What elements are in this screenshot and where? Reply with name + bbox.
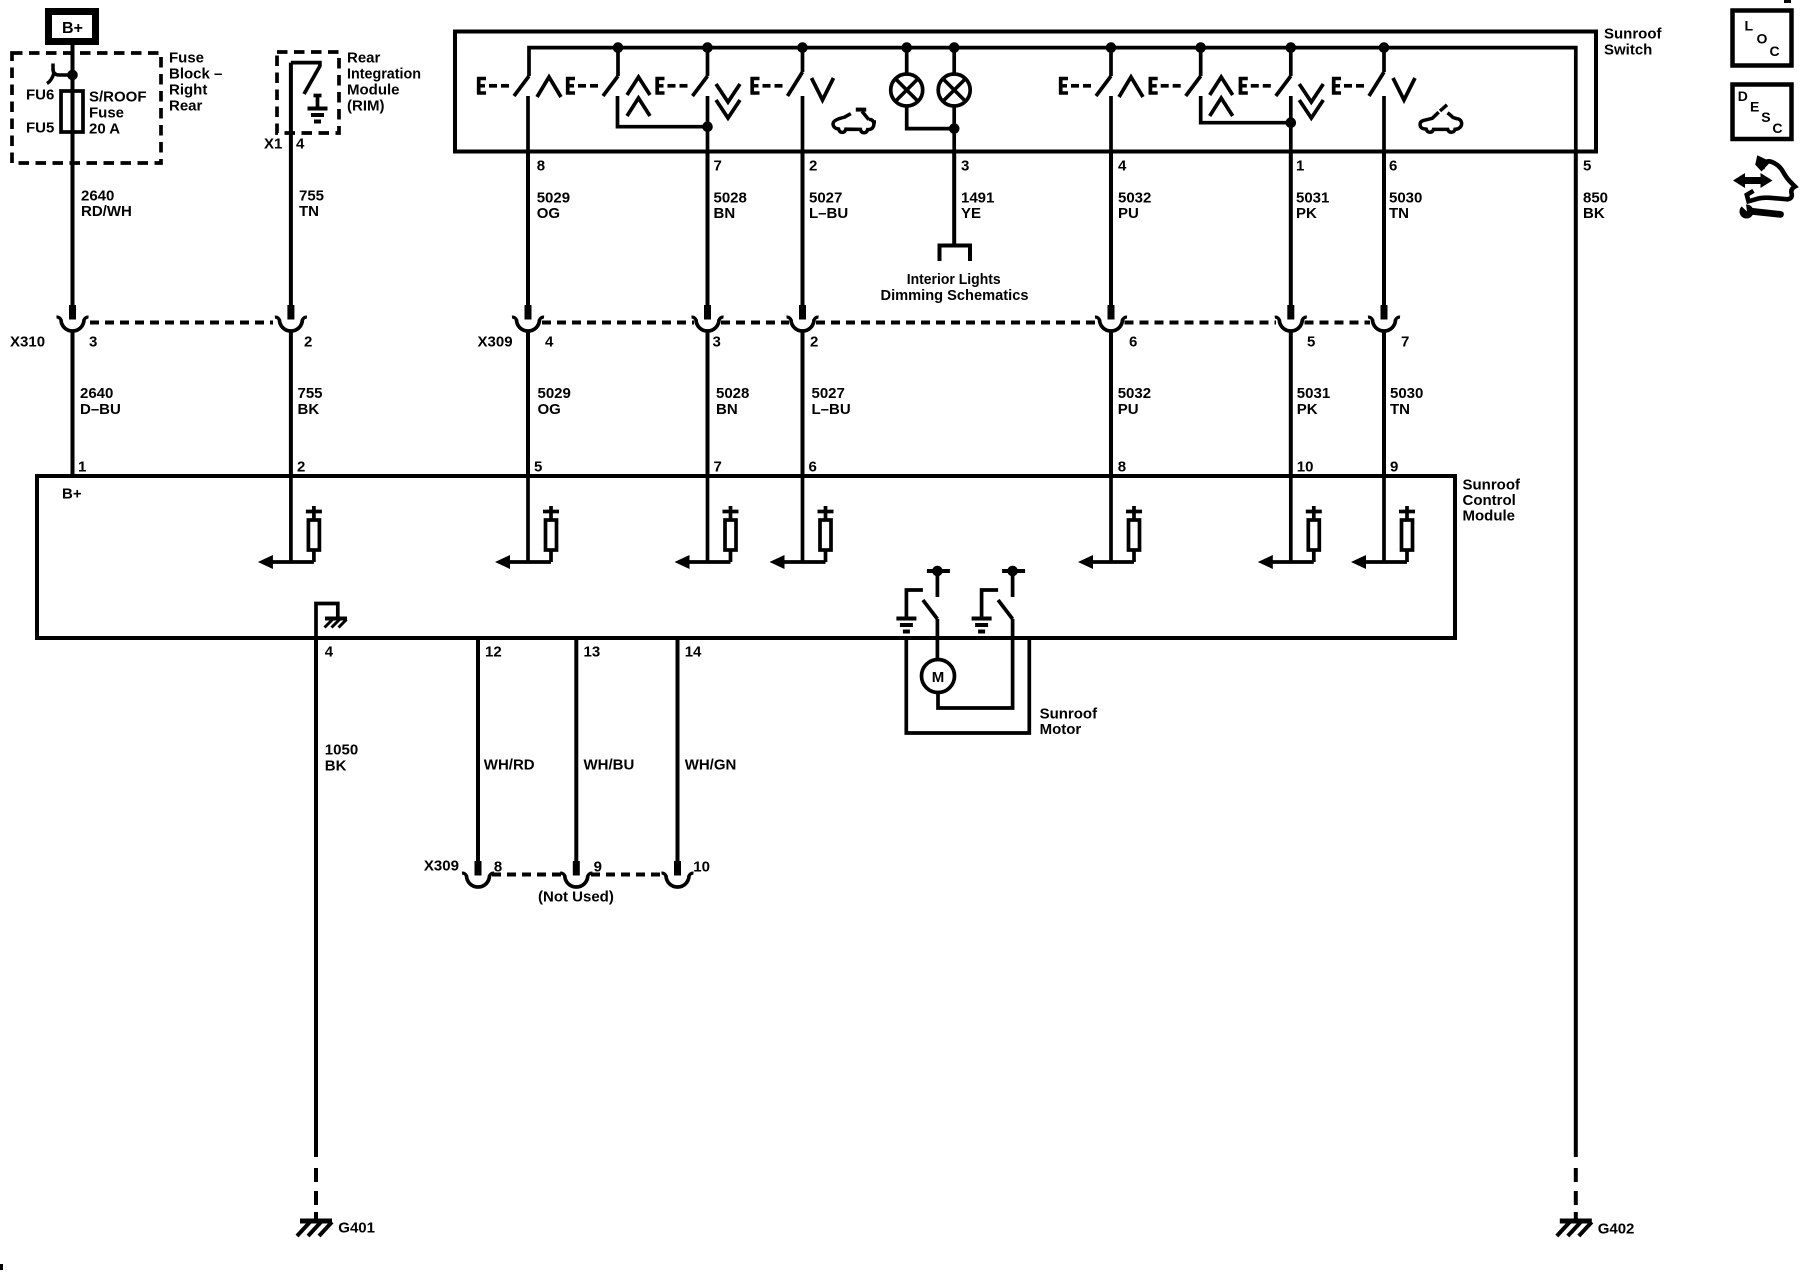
svg-text:5032: 5032 (1118, 190, 1151, 207)
svg-text:Integration: Integration (347, 66, 421, 83)
wire label 5031 PK (1296, 190, 1329, 223)
svg-text:5032: 5032 (1118, 385, 1151, 402)
svg-text:L: L (1745, 18, 1754, 34)
svg-text:2: 2 (304, 334, 312, 351)
svg-text:FU6: FU6 (26, 87, 54, 104)
svg-text:6: 6 (809, 459, 817, 476)
wire X309.5 to module pin 10 (1289, 331, 1293, 476)
connector X310 pin 3 (57, 305, 89, 331)
wire lamps to pin 3 (952, 106, 956, 151)
fuse FU5 S/ROOF 20A (61, 91, 83, 132)
wire pin 6 to X309 pin 7 (1382, 150, 1386, 305)
svg-text:BN: BN (716, 401, 738, 418)
svg-text:OG: OG (538, 401, 561, 418)
svg-text:850: 850 (1583, 190, 1608, 207)
wire X309.4 to module pin 5 (526, 331, 530, 476)
wire label 5027 L-BU (809, 190, 848, 223)
svg-text:BK: BK (325, 758, 347, 775)
svg-text:6: 6 (1129, 334, 1137, 351)
wire S8 to pin 6 (1382, 96, 1386, 150)
RIM internal ground (308, 96, 328, 122)
switch pin labels (537, 158, 1592, 175)
svg-text:8: 8 (494, 859, 502, 876)
junction lamps common (949, 123, 960, 134)
svg-text:9: 9 (594, 859, 602, 876)
svg-text:B+: B+ (62, 20, 83, 37)
wire B+ feed down through fuse to X310 pin 3 (71, 45, 75, 305)
connector X309 pin 8 not used (462, 861, 494, 887)
svg-text:5028: 5028 (716, 385, 749, 402)
car opening icon (1420, 105, 1462, 132)
sunroof switch outer box (455, 32, 1596, 152)
wire label 5028 BN (714, 190, 747, 223)
svg-text:Sunroof: Sunroof (1040, 706, 1098, 723)
svg-text:Sunroof: Sunroof (1604, 26, 1662, 43)
svg-text:Motor: Motor (1040, 721, 1082, 738)
wire X309.2 to module pin 6 (801, 331, 805, 476)
switch S5 open/up contact (1059, 42, 1143, 97)
svg-text:5: 5 (1583, 158, 1591, 175)
fuse block label (169, 50, 222, 115)
wire lamp 1 to lamp 2 node (907, 106, 955, 129)
wire label 5029 OG (537, 190, 570, 223)
module pin labels bottom (325, 644, 702, 661)
svg-text:Control: Control (1463, 492, 1516, 509)
svg-text:WH/BU: WH/BU (584, 757, 635, 774)
switch S1 open/up contact (477, 76, 561, 97)
svg-text:7: 7 (714, 158, 722, 175)
wire driver Q1 to motor (936, 637, 940, 660)
svg-text:M: M (932, 669, 945, 686)
connector labels X309 (478, 334, 1410, 351)
svg-text:Rear: Rear (347, 50, 381, 67)
pull-up and sense arrow pin 8 (1078, 476, 1142, 569)
svg-text:10: 10 (1297, 459, 1314, 476)
LOC reference box (1733, 11, 1792, 66)
svg-text:BK: BK (298, 401, 320, 418)
svg-text:Module: Module (347, 82, 400, 99)
wire S1 to pin 8 (526, 96, 530, 150)
connector X309 pin 4 (512, 305, 544, 331)
connector X309 pin 5 (1275, 305, 1307, 331)
svg-text:3: 3 (961, 158, 969, 175)
page corner mark (0, 1264, 3, 1270)
junction lamp 2 (949, 42, 960, 53)
svg-text:Switch: Switch (1604, 42, 1652, 59)
svg-text:Right: Right (169, 82, 207, 99)
sunroof switch internal bus (529, 48, 1576, 152)
connector labels X310 (10, 334, 312, 351)
svg-text:13: 13 (584, 644, 601, 661)
wire pin 8 to X309 pin 4 (526, 150, 530, 305)
wire to lamp 2 (952, 48, 956, 75)
svg-text:5029: 5029 (538, 385, 571, 402)
switch S3 express-down contact (656, 42, 741, 118)
svg-text:X310: X310 (10, 334, 45, 351)
module pin labels top (78, 459, 1398, 476)
svg-text:BN: BN (714, 205, 736, 222)
sunroof control module box (37, 476, 1455, 638)
fuse block dashed outline (12, 53, 161, 163)
rear integration module dashed outline (277, 52, 339, 133)
svg-text:9: 9 (1390, 459, 1398, 476)
svg-text:BK: BK (1583, 205, 1605, 222)
svg-text:12: 12 (485, 644, 502, 661)
wire label 5031 PK lower (1297, 385, 1330, 418)
svg-text:D: D (1738, 88, 1748, 104)
svg-text:5030: 5030 (1390, 385, 1423, 402)
connector X309 pin 6 (1095, 305, 1127, 331)
connector X309 pin 7 (1368, 305, 1400, 331)
svg-text:5031: 5031 (1297, 385, 1330, 402)
pull-up and sense arrow pin 7 (675, 476, 739, 569)
svg-text:C: C (1770, 43, 1780, 59)
interior lights note (881, 271, 1029, 304)
switch S7 express-down contact (1239, 42, 1324, 118)
sunroof motor enclosure (906, 637, 1029, 733)
wire label 5032 PU lower (1118, 385, 1151, 418)
wire label 1050 BK (325, 742, 358, 775)
connector X310 pin 2 (275, 305, 307, 331)
svg-text:Module: Module (1463, 508, 1516, 525)
wire module pin 12 (476, 637, 480, 861)
junction B+ tap (67, 70, 78, 81)
wire S2 return to pin 7 node (618, 96, 708, 127)
wire label 5032 PU (1118, 190, 1151, 223)
svg-text:X1: X1 (264, 136, 282, 153)
svg-text:X309: X309 (424, 858, 459, 875)
svg-text:755: 755 (299, 188, 324, 205)
wire label 5028 BN lower (716, 385, 749, 418)
pull-up and sense arrow pin 2 (258, 476, 322, 569)
svg-text:D–BU: D–BU (80, 401, 121, 418)
wire label 5030 TN lower (1390, 385, 1423, 418)
wire X309.7 to module pin 9 (1382, 331, 1386, 476)
sunroof motor M (922, 660, 955, 693)
svg-text:C: C (1772, 120, 1782, 136)
svg-text:Sunroof: Sunroof (1463, 477, 1521, 494)
svg-text:5027: 5027 (812, 385, 845, 402)
svg-text:4: 4 (325, 644, 334, 661)
svg-text:E: E (1750, 99, 1759, 115)
off-page connector interior lights (940, 246, 971, 262)
sunroof switch label (1604, 26, 1662, 59)
svg-text:PK: PK (1297, 401, 1318, 418)
wire label 755 BK (298, 385, 323, 418)
svg-text:Fuse: Fuse (169, 50, 204, 67)
module internal ground to pin 4 (316, 604, 347, 638)
svg-text:1: 1 (1296, 158, 1304, 175)
svg-text:1: 1 (78, 459, 86, 476)
wire to lamp 1 (905, 48, 909, 75)
svg-text:OG: OG (537, 205, 560, 222)
wire pin 2 to X309 pin 2 (801, 150, 805, 305)
DESC reference box (1733, 85, 1792, 140)
svg-text:S/ROOF: S/ROOF (89, 89, 147, 106)
X309 not used dashed line (492, 873, 663, 877)
svg-text:X309: X309 (478, 334, 513, 351)
svg-text:755: 755 (298, 385, 323, 402)
X309 harness dashed line (542, 321, 1370, 325)
RIM internal switch (291, 63, 320, 94)
page top edge mark (1784, 0, 1791, 3)
wire pin 1 to X309 pin 5 (1289, 150, 1293, 305)
wire X309.6 to module pin 8 (1109, 331, 1113, 476)
wire label 2640 D-BU (80, 385, 121, 418)
wire S5 to pin 4 (1109, 96, 1113, 150)
connector labels X309 lower (424, 858, 710, 876)
wire X310.2 to module pin 2 (289, 331, 293, 476)
svg-text:5030: 5030 (1389, 190, 1422, 207)
svg-text:G401: G401 (338, 1220, 375, 1237)
svg-text:7: 7 (1401, 334, 1409, 351)
connector X309 pin 2 (787, 305, 819, 331)
svg-text:TN: TN (1390, 401, 1410, 418)
svg-text:7: 7 (714, 459, 722, 476)
junction S2/S3 (702, 121, 713, 132)
wire label 5029 OG lower (538, 385, 571, 418)
svg-text:WH/GN: WH/GN (685, 757, 737, 774)
svg-text:4: 4 (545, 334, 554, 351)
pull-up and sense arrow pin 9 (1351, 476, 1415, 569)
svg-text:TN: TN (299, 203, 319, 220)
svg-text:4: 4 (1118, 158, 1127, 175)
svg-text:8: 8 (537, 158, 545, 175)
wire label 850 BK (1583, 190, 1608, 223)
wire S4 to pin 2 (801, 96, 805, 150)
switch S2 express-up contact (566, 42, 650, 116)
svg-text:TN: TN (1389, 205, 1409, 222)
svg-text:8: 8 (1118, 459, 1126, 476)
car closing icon (833, 110, 876, 133)
wire module pin 13 (574, 637, 578, 861)
svg-text:3: 3 (713, 334, 721, 351)
svg-text:FU5: FU5 (26, 120, 54, 137)
svg-text:2: 2 (809, 158, 817, 175)
svg-text:PU: PU (1118, 401, 1139, 418)
svg-text:2: 2 (297, 459, 305, 476)
svg-text:1050: 1050 (325, 742, 358, 759)
wire RIM output 755 to X310 pin 2 (289, 63, 293, 305)
X310 harness dashed line (90, 321, 273, 325)
svg-text:5: 5 (534, 459, 542, 476)
svg-text:RD/WH: RD/WH (81, 203, 132, 220)
wire pin 3 to interior lights (952, 150, 956, 244)
svg-text:PK: PK (1296, 205, 1317, 222)
wire G402 dashed tail (1574, 1168, 1578, 1220)
wire pin 7 to X309 pin 3 (706, 150, 710, 305)
fuse labels (26, 87, 147, 138)
wire S7 to pin 1 (1289, 96, 1293, 150)
svg-text:B+: B+ (62, 486, 82, 503)
svg-text:Block –: Block – (169, 66, 222, 83)
ground G402 (1557, 1221, 1635, 1238)
driver Q2 motor down (972, 566, 1026, 637)
svg-text:G402: G402 (1598, 1221, 1635, 1238)
svg-text:5028: 5028 (714, 190, 747, 207)
wire motor to driver Q2 (938, 637, 1013, 708)
switch S8 down contact (1332, 42, 1415, 100)
junction S6/S7 (1286, 117, 1297, 128)
bus tap hook symbol (47, 64, 69, 84)
lamp 1 illumination (891, 74, 923, 106)
pull-up and sense arrow pin 6 (770, 476, 834, 569)
svg-text:5: 5 (1307, 334, 1315, 351)
wire label 755 TN (299, 188, 324, 221)
wire module pin 4 ground 1050 BK (314, 637, 318, 1157)
wire label 2640 RD/WH (81, 188, 132, 221)
sunroof control module label (1463, 477, 1521, 525)
svg-text:3: 3 (89, 334, 97, 351)
RIM connector label X1 pin 4 (264, 136, 305, 153)
svg-text:2640: 2640 (80, 385, 113, 402)
svg-text:(Not Used): (Not Used) (538, 889, 614, 906)
driver Q1 motor up (896, 566, 950, 637)
svg-text:S: S (1761, 109, 1770, 125)
sunroof motor label (1040, 706, 1098, 739)
wire label 1491 YE (961, 190, 994, 223)
pull-up and sense arrow pin 10 (1258, 476, 1322, 569)
connector X309 pin 9 not used (560, 861, 592, 887)
svg-text:5027: 5027 (809, 190, 842, 207)
svg-text:5029: 5029 (537, 190, 570, 207)
switch S4 down contact (751, 42, 834, 100)
service icon arrows and wrench (1733, 155, 1795, 218)
svg-text:5031: 5031 (1296, 190, 1329, 207)
svg-text:1491: 1491 (961, 190, 994, 207)
svg-text:Interior Lights: Interior Lights (907, 271, 1001, 288)
wire label 5027 L-BU lower (812, 385, 851, 418)
wire S6 return to pin 1 node (1201, 96, 1291, 123)
svg-text:YE: YE (961, 205, 981, 222)
svg-text:4: 4 (296, 136, 305, 153)
svg-text:Fuse: Fuse (89, 105, 124, 122)
connector X309 pin 3 (692, 305, 724, 331)
wire S3 to pin 7 (706, 96, 710, 150)
svg-text:2: 2 (810, 334, 818, 351)
pull-up and sense arrow pin 5 (495, 476, 559, 569)
svg-text:6: 6 (1389, 158, 1397, 175)
svg-text:L–BU: L–BU (812, 401, 851, 418)
wire pin 5 ground 850 BK (1574, 150, 1578, 1157)
svg-text:2640: 2640 (81, 188, 114, 205)
wire label 5030 TN (1389, 190, 1422, 223)
svg-text:10: 10 (693, 859, 710, 876)
svg-text:(RIM): (RIM) (347, 98, 385, 115)
wire G401 dashed tail (314, 1168, 318, 1220)
svg-text:Rear: Rear (169, 98, 203, 115)
svg-text:20 A: 20 A (89, 121, 120, 138)
svg-text:PU: PU (1118, 205, 1139, 222)
RIM label (347, 50, 421, 115)
junction lamp 1 (901, 42, 912, 53)
wire module pin 14 (676, 637, 680, 861)
battery feed B+ terminal box (45, 8, 99, 45)
svg-text:14: 14 (685, 644, 702, 661)
wire X310.3 to module pin 1 (71, 331, 75, 476)
svg-text:Dimming Schematics: Dimming Schematics (881, 287, 1029, 304)
switch S6 express-up contact (1149, 42, 1233, 116)
svg-text:WH/RD: WH/RD (484, 757, 535, 774)
lamp 2 illumination (938, 74, 970, 106)
wire pin 4 to X309 pin 6 (1109, 150, 1113, 305)
svg-text:O: O (1757, 31, 1768, 47)
svg-text:L–BU: L–BU (809, 205, 848, 222)
ground G401 (297, 1220, 375, 1237)
wire X309.3 to module pin 7 (706, 331, 710, 476)
connector X309 pin 10 not used (662, 861, 694, 887)
